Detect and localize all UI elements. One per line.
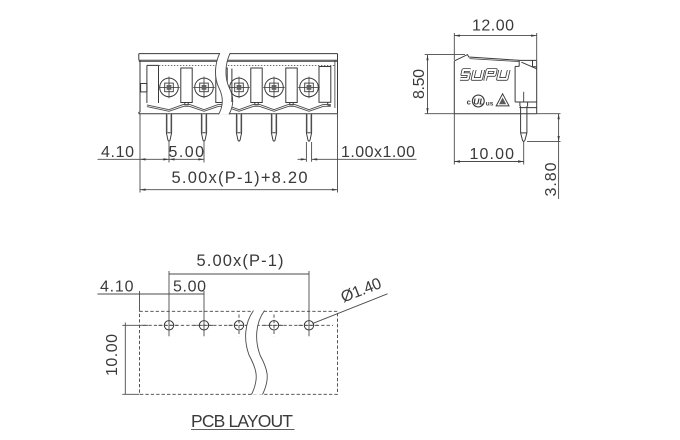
- SUPU logo: [460, 70, 509, 81]
- pin 3 front: [236, 114, 241, 142]
- PCB hole 1: [159, 321, 180, 330]
- svg-text:12.00: 12.00: [472, 17, 514, 34]
- dimension 4.10 top: [98, 144, 170, 161]
- front view body outline: [139, 54, 338, 114]
- spring clamp wavy edge: [147, 105, 331, 112]
- side view body: [454, 55, 536, 114]
- PCB hole 4: [264, 315, 285, 337]
- PCB break line left: [246, 311, 257, 395]
- svg-text:5.00x(P-1): 5.00x(P-1): [197, 252, 284, 270]
- divider wall 5 end: [319, 67, 331, 106]
- PCB LAYOUT title: [191, 411, 295, 431]
- pin1 extension: [168, 141, 170, 162]
- svg-text:us: us: [486, 101, 494, 108]
- svg-text:4.10: 4.10: [100, 279, 134, 296]
- PCB hole 5: [299, 321, 320, 330]
- screw 5: [298, 77, 320, 99]
- svg-text:10.00: 10.00: [470, 146, 515, 163]
- extension line left front: [139, 114, 141, 193]
- dimension 5.00 pcb: [169, 279, 206, 296]
- screw 3: [228, 77, 250, 99]
- PCB hole2 extension: [203, 291, 205, 336]
- dimension 8.50: [411, 55, 465, 114]
- svg-text:5.00x(P-1)+8.20: 5.00x(P-1)+8.20: [172, 169, 308, 187]
- extension line right front: [337, 114, 339, 193]
- dimension 1.00x1.00: [298, 144, 417, 161]
- front view cavity left wall: [147, 65, 159, 103]
- front view left wall notch: [141, 84, 147, 92]
- pin5 edge extensions: [306, 142, 311, 162]
- dimension 5.00x(P-1)+8.20: [140, 169, 338, 191]
- break line left front view: [216, 53, 223, 114]
- chamber wall fragment right of break: [231, 69, 233, 103]
- screw 1: [158, 77, 180, 99]
- screw 4: [263, 77, 285, 99]
- dimension 5.00 top: [169, 144, 205, 161]
- svg-text:UL: UL: [473, 96, 484, 106]
- PCB hole1 extension: [168, 271, 170, 336]
- dimension 10.00 side: [454, 114, 523, 165]
- svg-text:10.00: 10.00: [104, 334, 121, 376]
- PCB break line right: [257, 311, 268, 395]
- divider wall 3: [251, 68, 262, 105]
- svg-text:1.00x1.00: 1.00x1.00: [341, 144, 415, 161]
- UL logo: [467, 95, 494, 108]
- divider wall 1: [181, 68, 192, 105]
- screw 2: [193, 77, 215, 99]
- pin 1 front: [166, 114, 171, 142]
- PCB centerline dashed: [143, 324, 333, 326]
- svg-text:4.10: 4.10: [101, 144, 134, 161]
- pin 2 front: [201, 114, 206, 142]
- pin 5 front: [306, 114, 311, 142]
- pin 4 front: [271, 114, 276, 142]
- svg-text:c: c: [467, 98, 471, 107]
- dimension 12.00: [454, 17, 536, 60]
- pin2 extension: [203, 141, 205, 162]
- svg-text:PCB LAYOUT: PCB LAYOUT: [191, 411, 293, 431]
- break band erase front view: [216, 53, 233, 114]
- PCB break band erase: [246, 311, 268, 395]
- PCB outline dashed: [140, 311, 338, 394]
- PCB hole 3: [229, 315, 250, 337]
- PCB hole5 extension: [308, 271, 310, 336]
- divider wall 4: [286, 68, 297, 105]
- dimension Ø1.40 leader: [313, 275, 388, 323]
- dimension 4.10 pcb: [98, 279, 170, 296]
- PCB rect-left extension: [139, 291, 141, 311]
- dimension 10.00 pcb: [104, 323, 148, 395]
- front view cavity dotted top edge: [147, 64, 335, 66]
- dimension 5.00x(P-1) pcb: [169, 252, 309, 274]
- svg-text:3.80: 3.80: [543, 162, 560, 196]
- svg-text:5.00: 5.00: [173, 279, 206, 296]
- break line right front view: [226, 53, 233, 114]
- svg-text:5.00: 5.00: [169, 144, 205, 161]
- PCB hole 2: [194, 321, 215, 330]
- svg-text:8.50: 8.50: [411, 69, 428, 99]
- VDE triangle mark: [496, 94, 509, 106]
- dimension 3.80: [527, 114, 561, 199]
- side view pin: [520, 92, 528, 142]
- divider wall 2 (at break): [216, 68, 227, 103]
